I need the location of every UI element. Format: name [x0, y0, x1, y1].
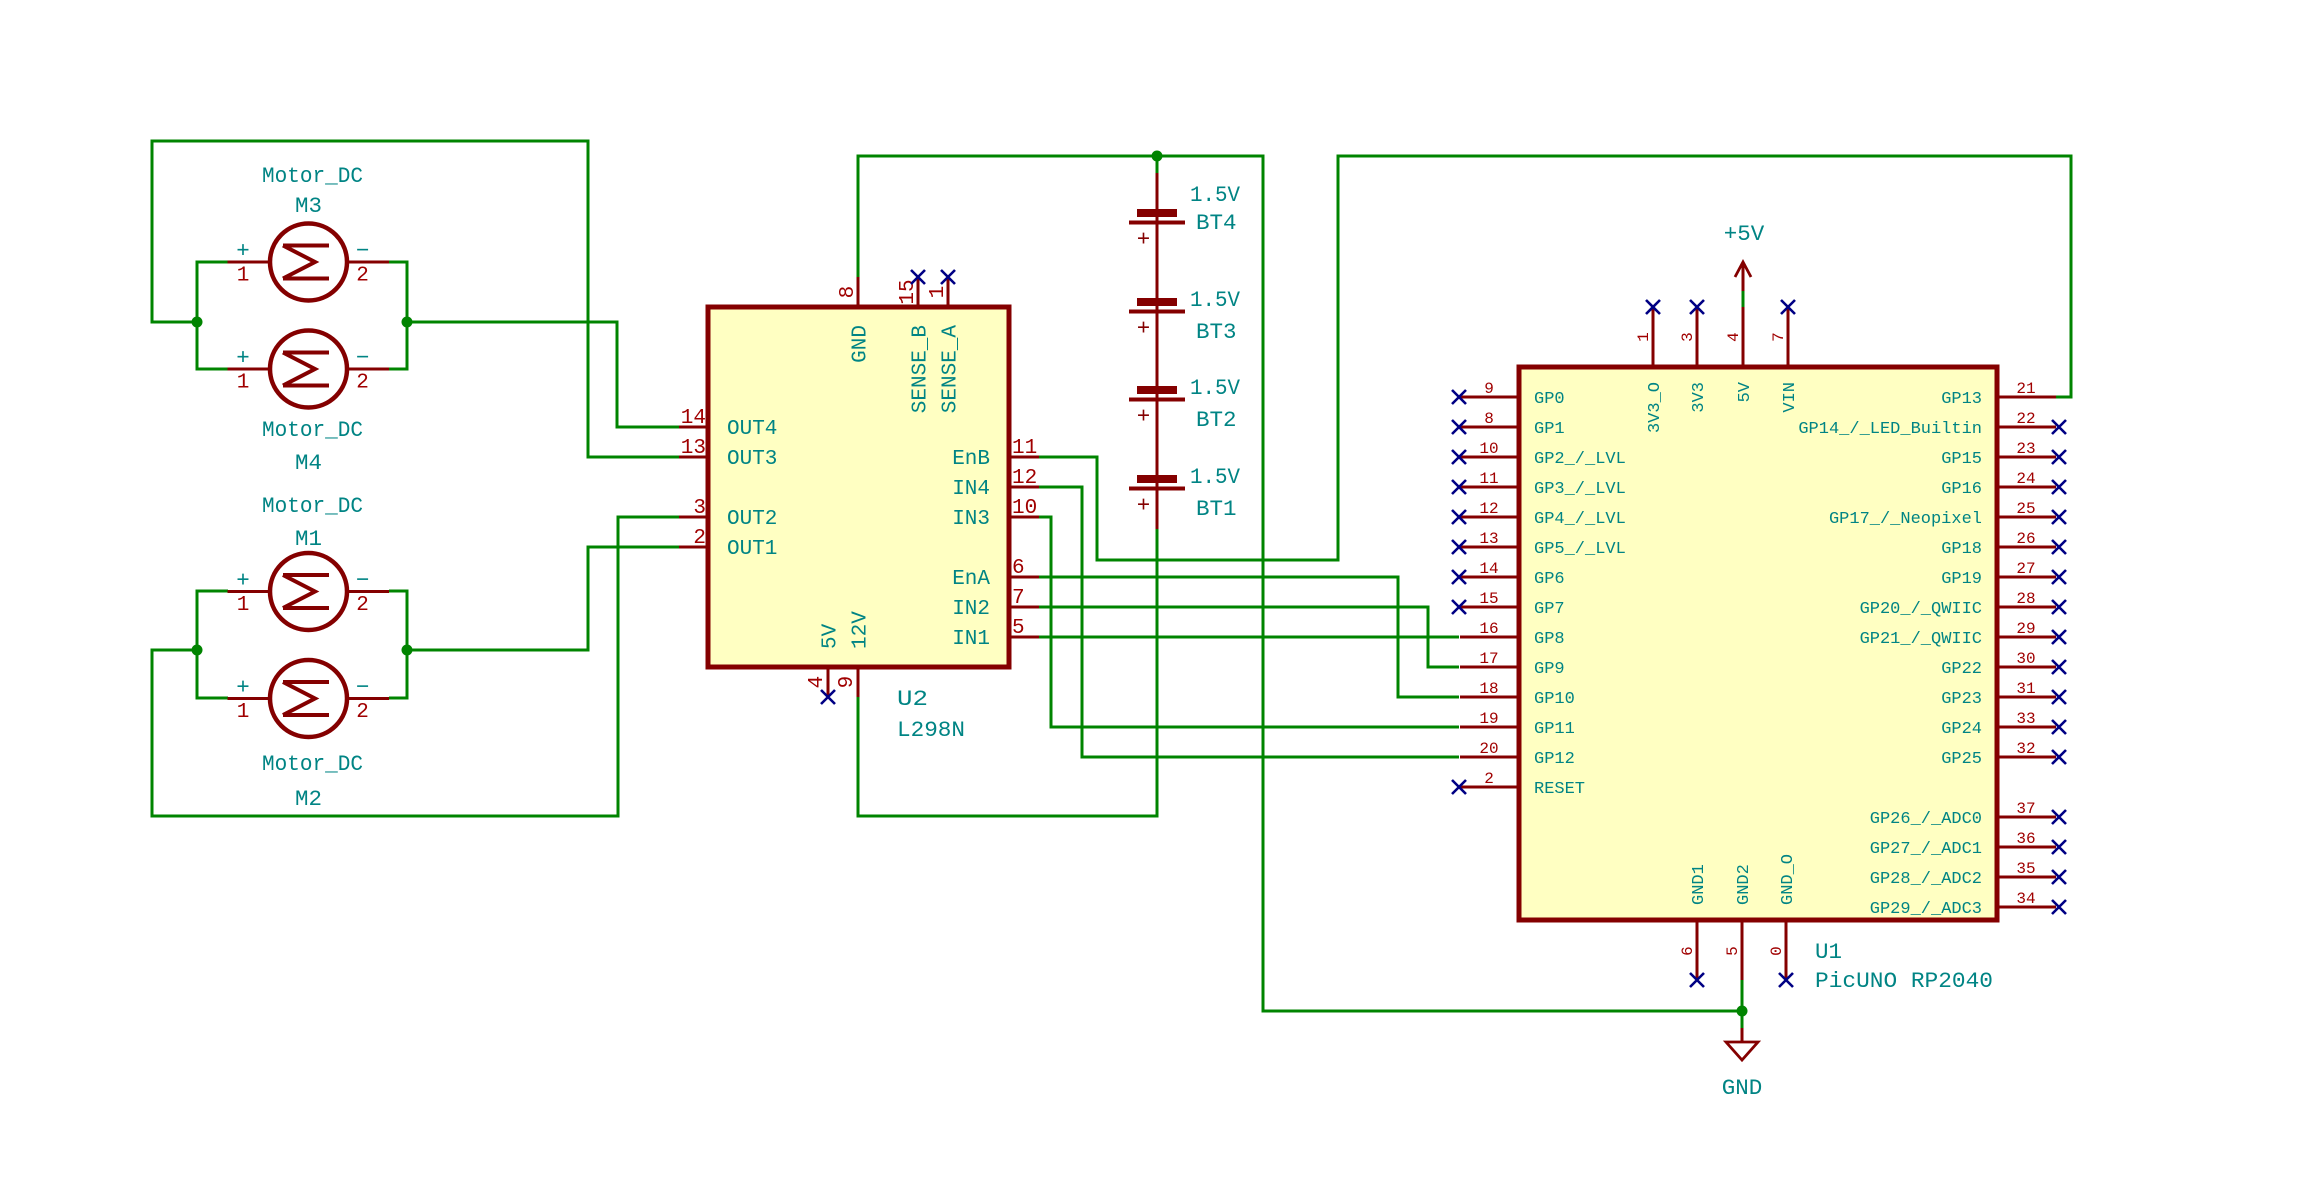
- svg-text:U2: U2: [897, 686, 928, 712]
- U1 pin 26 GP18: [1941, 530, 2056, 559]
- U2 pin 4 no-connect: [821, 690, 835, 704]
- U1 pin 36 GP27_/_ADC1: [1870, 830, 2056, 859]
- svg-text:2: 2: [356, 701, 369, 724]
- U1 pin 14 no-connect: [1452, 570, 1466, 584]
- U1 pin 13 no-connect: [1452, 540, 1466, 554]
- svg-text:BT2: BT2: [1196, 407, 1237, 433]
- svg-text:+: +: [236, 675, 250, 701]
- svg-text:VIN: VIN: [1781, 382, 1800, 413]
- svg-text:IN3: IN3: [952, 508, 990, 531]
- svg-text:24: 24: [2016, 470, 2035, 488]
- svg-text:GP29_/_ADC3: GP29_/_ADC3: [1870, 900, 1982, 919]
- U1 pin 6 GND1: [1679, 864, 1709, 980]
- svg-text:GP6: GP6: [1534, 570, 1565, 589]
- svg-text:SENSE_B: SENSE_B: [910, 325, 933, 413]
- svg-text:EnB: EnB: [952, 448, 990, 471]
- svg-text:GP25: GP25: [1941, 750, 1982, 769]
- svg-text:2: 2: [356, 372, 369, 395]
- U1 pin 21 GP13: [1941, 380, 2056, 409]
- svg-text:−: −: [356, 675, 370, 701]
- svg-text:GND: GND: [1722, 1075, 1763, 1101]
- U1 pin 7 no-connect: [1781, 300, 1795, 314]
- junction M1/M2 right: [402, 645, 413, 656]
- svg-text:11: 11: [1479, 470, 1498, 488]
- svg-text:EnA: EnA: [952, 568, 990, 591]
- wire 12V net: U2 pin9 to battery bottom: [858, 529, 1157, 816]
- svg-text:BT1: BT1: [1196, 496, 1237, 522]
- M3 pin 2 - label: [356, 238, 370, 288]
- svg-text:GP13: GP13: [1941, 390, 1982, 409]
- motor M2: [228, 660, 390, 737]
- U1 pin 29 no-connect: [2052, 630, 2066, 644]
- svg-text:GND_O: GND_O: [1779, 854, 1798, 905]
- svg-text:+: +: [236, 238, 250, 264]
- svg-text:RESET: RESET: [1534, 780, 1585, 799]
- U2 pin 8 GND: [837, 277, 873, 363]
- svg-text:GP16: GP16: [1941, 480, 1982, 499]
- svg-text:Motor_DC: Motor_DC: [262, 751, 363, 777]
- U1 pin 0 no-connect: [1779, 973, 1793, 987]
- M4 pin 2 - label: [356, 345, 370, 395]
- svg-text:27: 27: [2016, 560, 2035, 578]
- U1 pin 34 GP29_/_ADC3: [1870, 890, 2056, 919]
- U2 pin 15 SENSE_B: [897, 277, 933, 413]
- svg-text:4: 4: [806, 676, 829, 689]
- U2 pin 15 no-connect: [911, 270, 925, 284]
- U1 pin 7 VIN: [1770, 307, 1800, 413]
- svg-text:20: 20: [1479, 740, 1498, 758]
- svg-text:28: 28: [2016, 590, 2035, 608]
- svg-text:GP9: GP9: [1534, 660, 1565, 679]
- wire M3/M4 left bus: [197, 262, 228, 369]
- U1 pin 11 no-connect: [1452, 480, 1466, 494]
- battery BT3: [1129, 298, 1185, 342]
- svg-text:18: 18: [1479, 680, 1498, 698]
- svg-text:GP10: GP10: [1534, 690, 1575, 709]
- svg-text:IN4: IN4: [952, 478, 990, 501]
- svg-text:+: +: [1137, 227, 1151, 253]
- svg-text:M3: M3: [295, 193, 322, 219]
- svg-text:GP19: GP19: [1941, 570, 1982, 589]
- svg-text:12: 12: [1012, 467, 1037, 490]
- U1 pin 5 GND2: [1724, 864, 1754, 980]
- svg-text:GND: GND: [850, 325, 873, 363]
- U1 pin 28 GP20_/_QWIIC: [1860, 590, 2056, 619]
- svg-text:1: 1: [237, 372, 250, 395]
- svg-text:1: 1: [237, 594, 250, 617]
- svg-text:2: 2: [1484, 770, 1494, 788]
- U1 pin 32 no-connect: [2052, 750, 2066, 764]
- svg-text:U1: U1: [1815, 939, 1842, 965]
- svg-text:GP11: GP11: [1534, 720, 1575, 739]
- wire M1/M2 right bus to OUT1: [407, 547, 679, 650]
- U2 pin 7 IN2: [952, 587, 1039, 621]
- U1 pin 23 GP15: [1941, 440, 2056, 469]
- U1 pin 10 no-connect: [1452, 450, 1466, 464]
- svg-text:13: 13: [681, 437, 706, 460]
- ground GND symbol: [1722, 1028, 1763, 1101]
- svg-text:8: 8: [1484, 410, 1494, 428]
- junction M3/M4 right: [402, 317, 413, 328]
- svg-text:1: 1: [237, 701, 250, 724]
- U1 pin 22 GP14_/_LED_Builtin: [1798, 410, 2056, 439]
- U1 pin 2 RESET: [1460, 770, 1585, 799]
- U2 pin 14 OUT4: [679, 407, 777, 441]
- svg-text:1: 1: [927, 286, 950, 299]
- svg-text:OUT3: OUT3: [727, 448, 777, 471]
- svg-text:BT4: BT4: [1196, 210, 1237, 236]
- svg-text:GP28_/_ADC2: GP28_/_ADC2: [1870, 870, 1982, 889]
- U2 pin 2 OUT1: [679, 527, 777, 561]
- svg-text:2: 2: [693, 527, 706, 550]
- U1 pin 12 GP4_/_LVL: [1460, 500, 1626, 529]
- svg-text:+: +: [1137, 316, 1151, 342]
- U1 pin 30 GP22: [1941, 650, 2056, 679]
- svg-text:GP18: GP18: [1941, 540, 1982, 559]
- svg-text:−: −: [356, 568, 370, 594]
- svg-text:GP5_/_LVL: GP5_/_LVL: [1534, 540, 1626, 559]
- M4 pin 1 + label: [236, 345, 250, 395]
- wire M1/M2 left bus: [197, 591, 228, 698]
- U1 pin 37 GP26_/_ADC0: [1870, 800, 2056, 829]
- svg-text:GP26_/_ADC0: GP26_/_ADC0: [1870, 810, 1982, 829]
- junction U1 GND2 / GND net: [1737, 1006, 1748, 1017]
- svg-text:19: 19: [1479, 710, 1498, 728]
- svg-text:33: 33: [2016, 710, 2035, 728]
- svg-text:6: 6: [1679, 946, 1697, 956]
- svg-text:8: 8: [837, 286, 860, 299]
- U1 pin 35 no-connect: [2052, 870, 2066, 884]
- wire U1 5V pin to +5V symbol: [1742, 291, 1745, 307]
- svg-text:32: 32: [2016, 740, 2035, 758]
- svg-text:9: 9: [836, 676, 859, 689]
- svg-text:GP7: GP7: [1534, 600, 1565, 619]
- svg-text:1.5V: 1.5V: [1190, 464, 1240, 490]
- junction M3/M4 left: [192, 317, 203, 328]
- svg-text:SENSE_A: SENSE_A: [940, 325, 963, 414]
- svg-text:6: 6: [1012, 557, 1025, 580]
- U1 pin 34 no-connect: [2052, 900, 2066, 914]
- svg-text:12V: 12V: [850, 611, 873, 649]
- svg-text:PicUNO RP2040: PicUNO RP2040: [1815, 968, 1993, 994]
- motor M1: [228, 553, 390, 630]
- U1 pin 24 GP16: [1941, 470, 2056, 499]
- M1 pin 2 - label: [356, 568, 370, 618]
- U1 pin 9 no-connect: [1452, 390, 1466, 404]
- svg-text:3: 3: [693, 497, 706, 520]
- junction battery top / GND net: [1152, 151, 1163, 162]
- svg-text:1.5V: 1.5V: [1190, 375, 1240, 401]
- wire U1 GND2 to ground symbol: [1741, 980, 1744, 1028]
- op-amp U2 body (L298N): [708, 307, 1009, 667]
- U2 pin 1 no-connect: [941, 270, 955, 284]
- svg-text:23: 23: [2016, 440, 2035, 458]
- M2 pin 2 - label: [356, 675, 370, 725]
- U1 pin 29 GP21_/_QWIIC: [1860, 620, 2056, 649]
- svg-text:+5V: +5V: [1724, 221, 1765, 247]
- svg-text:−: −: [356, 345, 370, 371]
- svg-text:L298N: L298N: [897, 717, 965, 743]
- svg-text:GP22: GP22: [1941, 660, 1982, 679]
- svg-text:GP14_/_LED_Builtin: GP14_/_LED_Builtin: [1798, 420, 1982, 439]
- power +5V symbol: [1724, 221, 1765, 291]
- wire M3/M4 right bus: [389, 262, 407, 369]
- U1 pin 30 no-connect: [2052, 660, 2066, 674]
- U1 pin 19 GP11: [1460, 710, 1575, 739]
- U2 pin 6 EnA: [952, 557, 1039, 591]
- svg-text:GP3_/_LVL: GP3_/_LVL: [1534, 480, 1626, 499]
- svg-text:7: 7: [1770, 332, 1788, 342]
- svg-text:GP2_/_LVL: GP2_/_LVL: [1534, 450, 1626, 469]
- svg-text:−: −: [356, 238, 370, 264]
- svg-text:GP24: GP24: [1941, 720, 1982, 739]
- U1 pin 24 no-connect: [2052, 480, 2066, 494]
- svg-text:7: 7: [1012, 587, 1025, 610]
- U1 pin 10 GP2_/_LVL: [1460, 440, 1626, 469]
- svg-text:36: 36: [2016, 830, 2035, 848]
- svg-text:GP4_/_LVL: GP4_/_LVL: [1534, 510, 1626, 529]
- svg-text:5: 5: [1012, 617, 1025, 640]
- svg-text:Motor_DC: Motor_DC: [262, 417, 363, 443]
- U1 pin 36 no-connect: [2052, 840, 2066, 854]
- U1 pin 9 GP0: [1460, 380, 1565, 409]
- op-amp U1 body (PicUNO RP2040): [1519, 367, 1997, 920]
- U1 pin 33 GP24: [1941, 710, 2056, 739]
- motor M4: [228, 331, 390, 408]
- svg-text:37: 37: [2016, 800, 2035, 818]
- svg-text:+: +: [1137, 404, 1151, 430]
- U2 pin 12 IN4: [952, 467, 1039, 501]
- svg-text:GP21_/_QWIIC: GP21_/_QWIIC: [1860, 630, 1982, 649]
- U2 pin 5 IN1: [952, 617, 1039, 651]
- U1 pin 25 no-connect: [2052, 510, 2066, 524]
- svg-text:1: 1: [1635, 332, 1653, 342]
- battery BT2: [1129, 386, 1185, 430]
- battery BT1: [1129, 475, 1185, 519]
- wire M3/M4 left bus to OUT3 (top route): [152, 141, 679, 457]
- U1 pin 17 GP9: [1460, 650, 1565, 679]
- svg-text:GP0: GP0: [1534, 390, 1565, 409]
- wire IN4 to GP12: [1039, 487, 1459, 757]
- U1 pin 32 GP25: [1941, 740, 2056, 769]
- svg-text:25: 25: [2016, 500, 2035, 518]
- svg-text:GP20_/_QWIIC: GP20_/_QWIIC: [1860, 600, 1982, 619]
- U1 pin 1 3V3_O: [1635, 307, 1665, 433]
- svg-text:30: 30: [2016, 650, 2035, 668]
- wire battery top stub: [1156, 156, 1159, 173]
- svg-text:IN1: IN1: [952, 628, 990, 651]
- svg-text:34: 34: [2016, 890, 2035, 908]
- svg-text:2: 2: [356, 265, 369, 288]
- wire IN1 to GP8: [1039, 636, 1459, 639]
- svg-text:GP15: GP15: [1941, 450, 1982, 469]
- wire M1/M2 right bus: [389, 591, 407, 698]
- battery stack leads: [1156, 173, 1159, 529]
- U1 pin 33 no-connect: [2052, 720, 2066, 734]
- U2 pin 11 EnB: [952, 437, 1039, 471]
- U1 pin 22 no-connect: [2052, 420, 2066, 434]
- U1 pin 15 GP7: [1460, 590, 1565, 619]
- U1 pin 6 no-connect: [1690, 973, 1704, 987]
- svg-text:+: +: [236, 345, 250, 371]
- svg-text:1.5V: 1.5V: [1190, 287, 1240, 313]
- U1 pin 14 GP6: [1460, 560, 1565, 589]
- svg-text:15: 15: [897, 279, 920, 304]
- U1 pin 26 no-connect: [2052, 540, 2066, 554]
- svg-text:3V3_O: 3V3_O: [1646, 382, 1665, 433]
- svg-text:14: 14: [681, 407, 706, 430]
- wire EnB to GP13 (top route): [1039, 156, 2071, 560]
- svg-text:35: 35: [2016, 860, 2035, 878]
- U1 pin 20 GP12: [1460, 740, 1575, 769]
- svg-text:GND1: GND1: [1690, 864, 1709, 905]
- svg-text:GND2: GND2: [1735, 864, 1754, 905]
- svg-text:12: 12: [1479, 500, 1498, 518]
- svg-text:Motor_DC: Motor_DC: [262, 493, 363, 519]
- svg-text:13: 13: [1479, 530, 1498, 548]
- svg-text:OUT2: OUT2: [727, 508, 777, 531]
- U1 pin 12 no-connect: [1452, 510, 1466, 524]
- wire M3/M4 right bus to OUT4: [407, 322, 679, 427]
- svg-text:3: 3: [1679, 332, 1697, 342]
- U1 pin 8 GP1: [1460, 410, 1565, 439]
- svg-text:2: 2: [356, 594, 369, 617]
- wire M1/M2 left bus to OUT2 (bottom route): [152, 517, 679, 816]
- svg-text:5: 5: [1724, 946, 1742, 956]
- U1 pin 0 GND_O: [1768, 854, 1798, 980]
- U2 pin 10 IN3: [952, 497, 1039, 531]
- svg-text:M2: M2: [295, 786, 322, 812]
- svg-text:22: 22: [2016, 410, 2035, 428]
- svg-text:26: 26: [2016, 530, 2035, 548]
- U1 pin 2 no-connect: [1452, 780, 1466, 794]
- svg-text:IN2: IN2: [952, 598, 990, 621]
- svg-text:3V3: 3V3: [1690, 382, 1709, 413]
- svg-text:14: 14: [1479, 560, 1498, 578]
- U1 pin 13 GP5_/_LVL: [1460, 530, 1626, 559]
- junction M1/M2 left: [192, 645, 203, 656]
- svg-text:5V: 5V: [820, 623, 843, 649]
- svg-text:OUT4: OUT4: [727, 418, 777, 441]
- svg-text:GP1: GP1: [1534, 420, 1565, 439]
- U1 pin 35 GP28_/_ADC2: [1870, 860, 2056, 889]
- svg-text:GP8: GP8: [1534, 630, 1565, 649]
- U2 pin 1 SENSE_A: [927, 277, 963, 413]
- U1 pin 4 5V: [1725, 307, 1755, 402]
- svg-text:Motor_DC: Motor_DC: [262, 163, 363, 189]
- wire EnA to GP10: [1039, 577, 1459, 697]
- U2 pin 9 12V: [836, 611, 873, 697]
- U1 pin 31 no-connect: [2052, 690, 2066, 704]
- svg-text:5V: 5V: [1736, 381, 1755, 402]
- svg-text:0: 0: [1768, 946, 1786, 956]
- svg-text:+: +: [1137, 493, 1151, 519]
- svg-text:GP17_/_Neopixel: GP17_/_Neopixel: [1829, 510, 1982, 529]
- wire IN2 to GP9: [1039, 607, 1459, 667]
- svg-text:1: 1: [237, 265, 250, 288]
- U1 pin 15 no-connect: [1452, 600, 1466, 614]
- svg-text:17: 17: [1479, 650, 1498, 668]
- svg-text:OUT1: OUT1: [727, 538, 777, 561]
- U1 pin 27 no-connect: [2052, 570, 2066, 584]
- svg-text:1.5V: 1.5V: [1190, 182, 1240, 208]
- U1 pin 3 3V3: [1679, 307, 1709, 413]
- svg-text:GP23: GP23: [1941, 690, 1982, 709]
- motor M3: [228, 224, 390, 301]
- M1 pin 1 + label: [236, 568, 250, 618]
- U2 pin 3 OUT2: [679, 497, 777, 531]
- U1 pin 27 GP19: [1941, 560, 2056, 589]
- svg-text:15: 15: [1479, 590, 1498, 608]
- U1 pin 16 GP8: [1460, 620, 1565, 649]
- U1 pin 1 no-connect: [1646, 300, 1660, 314]
- svg-text:GP27_/_ADC1: GP27_/_ADC1: [1870, 840, 1982, 859]
- U1 pin 23 no-connect: [2052, 450, 2066, 464]
- M2 pin 1 + label: [236, 675, 250, 725]
- svg-text:+: +: [236, 568, 250, 594]
- svg-text:29: 29: [2016, 620, 2035, 638]
- U1 pin 3 no-connect: [1690, 300, 1704, 314]
- svg-text:M4: M4: [295, 450, 322, 476]
- svg-text:16: 16: [1479, 620, 1498, 638]
- svg-text:BT3: BT3: [1196, 319, 1237, 345]
- wire GND net: U2 pin8 to battery top to U1 GND2: [858, 156, 1742, 1011]
- svg-text:11: 11: [1012, 437, 1037, 460]
- svg-text:31: 31: [2016, 680, 2035, 698]
- U1 pin 18 GP10: [1460, 680, 1575, 709]
- U2 pin 13 OUT3: [679, 437, 777, 471]
- svg-text:9: 9: [1484, 380, 1494, 398]
- svg-text:10: 10: [1479, 440, 1498, 458]
- svg-text:4: 4: [1725, 332, 1743, 342]
- U1 pin 8 no-connect: [1452, 420, 1466, 434]
- U1 pin 31 GP23: [1941, 680, 2056, 709]
- U1 pin 37 no-connect: [2052, 810, 2066, 824]
- svg-text:10: 10: [1012, 497, 1037, 520]
- battery BT4: [1129, 209, 1185, 253]
- U2 pin 4 5V: [806, 623, 843, 697]
- svg-text:M1: M1: [295, 526, 322, 552]
- U1 pin 11 GP3_/_LVL: [1460, 470, 1626, 499]
- M3 pin 1 + label: [236, 238, 250, 288]
- svg-text:21: 21: [2016, 380, 2035, 398]
- U1 pin 25 GP17_/_Neopixel: [1829, 500, 2056, 529]
- svg-text:GP12: GP12: [1534, 750, 1575, 769]
- wire IN3 to GP11: [1039, 517, 1459, 727]
- U1 pin 28 no-connect: [2052, 600, 2066, 614]
